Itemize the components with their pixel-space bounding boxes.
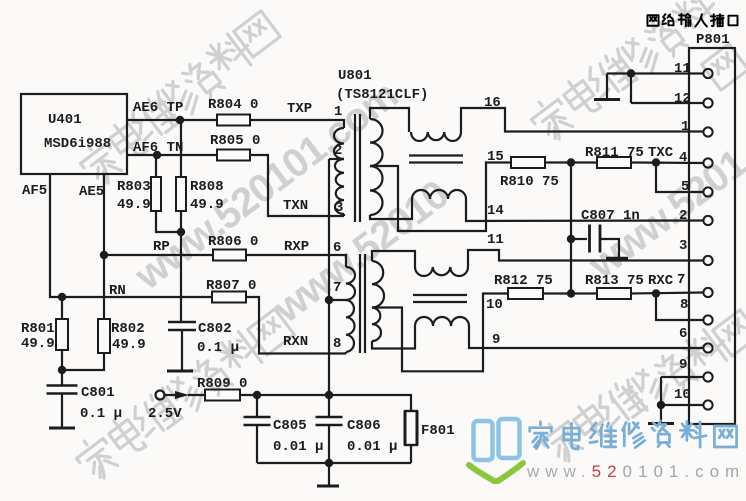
label connector pin 9 bbox=[679, 357, 687, 373]
label 10 bbox=[486, 297, 503, 313]
label pin 2 bbox=[334, 143, 342, 159]
label connector pin 10 bbox=[674, 387, 691, 403]
svg-text:11: 11 bbox=[487, 232, 504, 248]
connector pin 6 contact bbox=[703, 343, 712, 352]
svg-text:RXC: RXC bbox=[648, 273, 674, 289]
svg-text:14: 14 bbox=[487, 203, 504, 219]
wire choke to connector pin 2 bbox=[466, 199, 704, 221]
svg-text:R804 0: R804 0 bbox=[208, 97, 258, 113]
choke core (TX) bbox=[409, 156, 463, 163]
node C805 top bbox=[253, 391, 261, 399]
connector pin 10 contact bbox=[703, 400, 712, 409]
svg-text:2: 2 bbox=[679, 208, 687, 224]
label RN bbox=[109, 283, 126, 299]
resistor R807 bbox=[206, 278, 256, 303]
node AF6 TN / R803 junction bbox=[153, 151, 161, 159]
svg-text:RP: RP bbox=[153, 239, 170, 255]
label AE5 bbox=[79, 184, 104, 200]
wire R801/R802 bottoms join bbox=[62, 350, 104, 370]
wire rail to F801 bbox=[329, 395, 411, 411]
svg-text:F801: F801 bbox=[421, 423, 455, 439]
choke winding (TX bottom) bbox=[412, 190, 466, 199]
transformer U801 RX core bbox=[360, 254, 365, 353]
svg-text:RXP: RXP bbox=[284, 239, 309, 255]
node pin11/12 tie bbox=[627, 69, 635, 77]
ground (pins 9/10) bbox=[648, 422, 674, 425]
svg-text:R810 75: R810 75 bbox=[500, 174, 559, 190]
svg-text:AF5: AF5 bbox=[22, 183, 47, 199]
svg-text:R809 0: R809 0 bbox=[197, 376, 247, 392]
svg-text:1: 1 bbox=[681, 119, 689, 135]
choke core (RX) bbox=[413, 295, 467, 302]
node R810/R811 junction bbox=[567, 158, 575, 166]
transformer U801 TX primary winding (pins 1-2-3) bbox=[334, 128, 344, 216]
wire pin 15 center tap jog bbox=[370, 163, 511, 232]
logo text 家电维修资料网 bbox=[530, 421, 737, 449]
svg-text:8: 8 bbox=[680, 297, 688, 313]
label 11 bbox=[487, 232, 504, 248]
svg-text:R801: R801 bbox=[21, 321, 55, 337]
svg-text:0.1 μ: 0.1 μ bbox=[197, 340, 239, 356]
label R806 0 net RXP bbox=[284, 239, 309, 255]
svg-text:7: 7 bbox=[333, 280, 341, 296]
svg-text:R808: R808 bbox=[190, 179, 224, 195]
svg-text:MSD6i988: MSD6i988 bbox=[44, 136, 111, 152]
wire pin 14 path to choke bbox=[370, 199, 412, 219]
wire RXP (R806 to transformer pin 6) bbox=[246, 255, 346, 267]
connector pin 9 contact bbox=[703, 372, 712, 381]
svg-text:C806: C806 bbox=[347, 418, 381, 434]
svg-text:0.01 μ: 0.01 μ bbox=[273, 439, 323, 455]
label connector pin 5 bbox=[681, 179, 689, 195]
svg-text:10: 10 bbox=[486, 297, 503, 313]
connector pin 3 contact bbox=[703, 256, 712, 265]
capacitor C806 bbox=[316, 395, 398, 455]
resistor R810 bbox=[500, 157, 559, 190]
svg-text:1: 1 bbox=[334, 104, 342, 120]
svg-text:C802: C802 bbox=[198, 321, 232, 337]
node RN / R801 junction bbox=[58, 293, 66, 301]
svg-text:12: 12 bbox=[674, 91, 691, 107]
svg-text:R806 0: R806 0 bbox=[208, 234, 258, 250]
wire center tap down-rail bbox=[328, 159, 330, 395]
label U801 bbox=[338, 68, 372, 84]
supply 2.5V terminal bbox=[148, 391, 182, 423]
wire TXC to connector pin 5 bbox=[656, 163, 704, 193]
wire RXN (R807 to transformer pin 8) bbox=[246, 297, 346, 354]
logo book icon bbox=[469, 419, 523, 481]
connector pin 11 contact bbox=[703, 69, 712, 78]
wire center rail (C805 to C806 node) bbox=[257, 394, 329, 396]
svg-text:49.9: 49.9 bbox=[21, 336, 55, 352]
wire AE5 (U401 down) bbox=[103, 174, 105, 319]
svg-text:9: 9 bbox=[492, 332, 500, 348]
svg-text:C801: C801 bbox=[81, 385, 115, 401]
wire pin 11 ground stub bbox=[606, 74, 608, 99]
label connector pin 3 bbox=[679, 238, 687, 254]
wire pin 11 path to choke bbox=[372, 251, 415, 267]
label connector pin 12 bbox=[674, 91, 691, 107]
connector pin 1 contact bbox=[703, 127, 712, 136]
wire pin 9/10 ground stub bbox=[660, 405, 662, 423]
svg-text:5: 5 bbox=[681, 179, 689, 195]
label RXN bbox=[283, 334, 308, 350]
wire R811 to connector pin 4 bbox=[631, 161, 704, 164]
connector pin 5 contact bbox=[703, 187, 712, 196]
svg-text:2: 2 bbox=[334, 143, 342, 159]
svg-text:10: 10 bbox=[674, 387, 691, 403]
wire arrow to R809 bbox=[188, 394, 205, 396]
svg-text:TXP: TXP bbox=[287, 101, 312, 117]
connector pin 4 contact bbox=[703, 158, 712, 167]
transformer U801 RX primary winding (pins 6-7-8) bbox=[346, 267, 355, 354]
resistor R812 bbox=[494, 273, 553, 299]
choke winding (RX bottom) bbox=[415, 317, 469, 326]
wire pin 16 path to choke bbox=[370, 108, 409, 132]
resistor R803 bbox=[117, 155, 161, 213]
svg-text:3: 3 bbox=[679, 238, 687, 254]
fuse F801 bbox=[405, 411, 455, 445]
svg-text:0.01 μ: 0.01 μ bbox=[347, 439, 397, 455]
resistor R808 bbox=[176, 120, 224, 213]
svg-text:U801: U801 bbox=[338, 68, 372, 84]
node C801 top bbox=[58, 366, 66, 374]
wire C805 to bottom rail bbox=[256, 425, 258, 463]
connector P801 body bbox=[689, 48, 735, 424]
wire termination bridge (R810/R811 to R812/R813) bbox=[570, 163, 572, 294]
wire connector pin 10 bbox=[661, 404, 704, 406]
node AE5 / RXP junction bbox=[100, 251, 108, 259]
svg-text:6: 6 bbox=[333, 240, 341, 256]
svg-text:TXN: TXN bbox=[283, 198, 308, 214]
resistor R809 bbox=[197, 376, 247, 401]
IC U401 bbox=[21, 94, 127, 174]
svg-text:TXC: TXC bbox=[648, 145, 674, 161]
wire R803/R808 bottoms to node RP bbox=[156, 211, 181, 232]
resistor R802 bbox=[98, 319, 146, 353]
svg-text:8: 8 bbox=[333, 336, 341, 352]
wire AE6 TP (U401 to R804) bbox=[127, 119, 217, 121]
arrow (supply feed) bbox=[175, 391, 189, 399]
svg-text:C805: C805 bbox=[273, 418, 307, 434]
wire choke to connector pin 3 bbox=[468, 250, 704, 267]
wire R809 to C805 node bbox=[240, 394, 257, 396]
wire RXC to connector pin 8 bbox=[656, 294, 704, 321]
label TXP bbox=[287, 101, 312, 117]
wire AF5 (U401 to RN rail) bbox=[50, 174, 212, 297]
svg-text:15: 15 bbox=[487, 149, 504, 165]
connector pin 8 contact bbox=[703, 315, 712, 324]
svg-text:2.5V: 2.5V bbox=[148, 406, 182, 422]
connector pin 12 contact bbox=[703, 98, 712, 107]
svg-text:RN: RN bbox=[109, 283, 126, 299]
svg-text:R802: R802 bbox=[111, 321, 145, 337]
label connector pin 4 bbox=[679, 150, 687, 166]
label TXN bbox=[283, 198, 308, 214]
label pin 6 bbox=[333, 240, 341, 256]
choke winding (TX top) bbox=[411, 132, 461, 141]
wire AF6 TN (U401 to R805) bbox=[127, 154, 217, 156]
label 网络输入插口 bbox=[647, 14, 737, 27]
wire connector pin 9 bbox=[661, 376, 704, 378]
node AE6 TP / R808 junction bbox=[176, 116, 184, 124]
svg-text:C807 1n: C807 1n bbox=[581, 208, 640, 224]
label connector pin 1 bbox=[681, 119, 689, 135]
label pin 7 bbox=[333, 280, 341, 296]
node bottom rail ground bbox=[325, 459, 333, 467]
wire RP to C802 bbox=[180, 232, 182, 322]
label RXC bbox=[648, 273, 674, 289]
wire pin 9 path to choke bbox=[372, 326, 415, 349]
node R812/R813 junction bbox=[567, 289, 575, 297]
resistor R804 bbox=[208, 97, 258, 126]
wire pin 9/10 tie bbox=[660, 377, 662, 405]
label AE6 TP bbox=[133, 100, 183, 116]
wire R812 to R813 bbox=[543, 292, 597, 294]
label 15 bbox=[487, 149, 504, 165]
label (TS8121CLF) bbox=[336, 87, 428, 103]
capacitor C802 bbox=[168, 321, 239, 356]
logo url www.520101.com bbox=[526, 462, 745, 481]
resistor R806 bbox=[208, 234, 258, 261]
label connector pin 2 bbox=[679, 208, 687, 224]
wire connector pin 11 bbox=[607, 72, 704, 74]
svg-text:49.9: 49.9 bbox=[190, 197, 224, 213]
transformer U801 RX secondary winding (pins 11-10-9) bbox=[372, 261, 384, 341]
svg-text:P801: P801 bbox=[696, 32, 730, 48]
label pin 1 bbox=[334, 104, 342, 120]
node pin 9/10 tie bbox=[657, 401, 665, 409]
label AF5 bbox=[22, 183, 47, 199]
label AF6 TN bbox=[133, 140, 183, 156]
wire bottom rail bbox=[257, 462, 411, 464]
svg-text:R803: R803 bbox=[117, 179, 151, 195]
wire R810 to R811 bbox=[545, 161, 597, 163]
svg-text:9: 9 bbox=[679, 357, 687, 373]
wire choke to connector pin 6 bbox=[469, 326, 704, 348]
ground (pins 11/12) bbox=[594, 98, 620, 101]
label pin 8 bbox=[333, 336, 341, 352]
svg-text:(TS8121CLF): (TS8121CLF) bbox=[336, 87, 428, 103]
resistor R805 bbox=[210, 133, 260, 161]
svg-text:R811 75: R811 75 bbox=[585, 145, 644, 161]
ground (C802) bbox=[167, 370, 193, 373]
label 9 bbox=[492, 332, 500, 348]
svg-text:R805 0: R805 0 bbox=[210, 133, 260, 149]
svg-text:R812 75: R812 75 bbox=[494, 273, 553, 289]
wire pin 7 center tap bbox=[329, 299, 346, 301]
wire pin 10 center tap jog bbox=[372, 294, 508, 372]
label connector pin 8 bbox=[680, 297, 688, 313]
svg-text:4: 4 bbox=[679, 150, 687, 166]
connector pin 7 contact bbox=[703, 288, 712, 297]
wire C801 to ground bbox=[61, 394, 63, 428]
svg-text:49.9: 49.9 bbox=[117, 197, 151, 213]
node center tap rail / C806 top bbox=[325, 391, 333, 399]
choke winding (RX top) bbox=[415, 267, 468, 276]
label 14 bbox=[487, 203, 504, 219]
svg-text:16: 16 bbox=[484, 95, 501, 111]
resistor R801 bbox=[21, 297, 68, 352]
connector pin 2 contact bbox=[703, 216, 712, 225]
wire TXP (R804 to transformer pin 1) bbox=[250, 120, 344, 128]
wire ground stub bbox=[328, 463, 330, 485]
wire F801 to bottom rail bbox=[410, 445, 412, 463]
transformer U801 TX secondary winding (pins 16-15-14) bbox=[370, 119, 382, 215]
wire R813 to connector pin 7 bbox=[631, 293, 704, 294]
ground (C801) bbox=[49, 427, 75, 430]
label TXC bbox=[648, 145, 674, 161]
svg-text:3: 3 bbox=[335, 200, 343, 216]
wire RP rail to R806 bbox=[104, 254, 213, 256]
wire pin 2 center tap bbox=[329, 158, 344, 160]
node RX pin 7 tap junction bbox=[325, 296, 333, 304]
resistor R813 bbox=[585, 273, 644, 299]
label connector pin 7 bbox=[677, 272, 685, 288]
svg-text:0.1 μ: 0.1 μ bbox=[80, 406, 122, 422]
wire TXN (R805 to transformer pin 3) bbox=[250, 155, 344, 216]
label connector pin 6 bbox=[679, 326, 687, 342]
svg-text:www.520101.com: www.520101.com bbox=[526, 462, 745, 481]
ground (C805/C806 rail) bbox=[317, 485, 339, 488]
resistor R811 bbox=[585, 145, 644, 168]
capacitor C807 bbox=[571, 208, 640, 259]
wire connector pin 12 bbox=[631, 102, 704, 104]
label connector pin 11 bbox=[674, 61, 691, 77]
wire C802 to ground bbox=[181, 330, 183, 370]
svg-text:AE5: AE5 bbox=[79, 184, 104, 200]
svg-text:RXN: RXN bbox=[283, 334, 308, 350]
node RP bbox=[177, 228, 185, 236]
capacitor C801 bbox=[47, 370, 123, 422]
capacitor C805 bbox=[244, 395, 324, 455]
wire C806 to bottom rail bbox=[328, 425, 330, 463]
node TXC bbox=[652, 158, 660, 166]
svg-text:7: 7 bbox=[677, 272, 685, 288]
svg-text:49.9: 49.9 bbox=[112, 337, 146, 353]
svg-text:AE6 TP: AE6 TP bbox=[133, 100, 183, 116]
wire pin11 tie down bbox=[630, 74, 632, 104]
svg-text:U401: U401 bbox=[48, 112, 82, 128]
transformer U801 TX core bbox=[355, 114, 360, 222]
label P801 bbox=[696, 32, 730, 48]
svg-text:6: 6 bbox=[679, 326, 687, 342]
label RP bbox=[153, 239, 170, 255]
node RXC bbox=[652, 289, 660, 297]
wire choke to connector pin 1 bbox=[461, 108, 704, 132]
node C807 tap bbox=[567, 235, 575, 243]
wire 2.5V to arrow bbox=[165, 394, 176, 396]
svg-text:AF6 TN: AF6 TN bbox=[133, 140, 183, 156]
svg-text:R813 75: R813 75 bbox=[585, 273, 644, 289]
svg-text:R807 0: R807 0 bbox=[206, 278, 256, 294]
label pin 3 bbox=[335, 200, 343, 216]
label 16 bbox=[484, 95, 501, 111]
